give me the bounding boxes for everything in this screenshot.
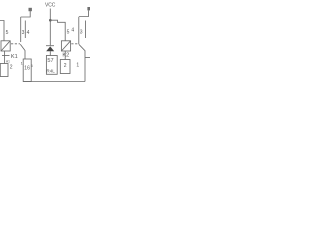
contact K1 fixed pin 4 line right: [85, 21, 87, 39]
connector box C: [60, 60, 70, 74]
relay coil K1: [1, 41, 10, 51]
diode D1: [46, 46, 54, 51]
svg-text:A1: A1: [6, 60, 10, 64]
dashed linkage K1: [11, 43, 20, 45]
wire VCC drop: [49, 9, 51, 46]
svg-text:4: 4: [71, 27, 74, 33]
component box center: [46, 56, 57, 75]
armature K1 contact: [20, 44, 25, 59]
wire diode to box: [49, 51, 51, 55]
svg-text:R4L: R4L: [46, 68, 55, 73]
svg-text:VCC: VCC: [45, 2, 56, 8]
node terminal right: [87, 7, 90, 10]
diode D1 cathode bar: [46, 45, 54, 47]
svg-text:3: 3: [80, 30, 83, 36]
svg-text:4: 4: [27, 30, 30, 36]
svg-text:2: 2: [10, 64, 13, 70]
svg-text:16: 16: [24, 65, 30, 71]
contact K2 fixed pin 4 line: [24, 21, 26, 39]
connector box B: [23, 59, 31, 82]
connector box A: [0, 64, 8, 77]
svg-text:5: 5: [67, 30, 70, 36]
svg-text:K1: K1: [11, 54, 18, 60]
wire coil K2 bottom pin: [64, 51, 66, 60]
svg-text:57: 57: [47, 58, 53, 64]
wire VCC to K2 coil: [50, 20, 65, 41]
contact K2 fixed pin 3 line: [20, 17, 22, 42]
coil K1 underline tick: [2, 55, 10, 57]
contact K1 fixed pin 3 line right: [78, 17, 80, 44]
armature K2 contact: [79, 44, 85, 81]
node junction dot: [49, 19, 52, 22]
svg-text:1: 1: [76, 62, 79, 68]
wire coil K1 bottom pin 2: [4, 51, 6, 64]
dashed linkage K2: [71, 43, 78, 45]
svg-text:K2: K2: [62, 53, 69, 59]
wire left input: [0, 21, 4, 41]
relay coil K2: [61, 41, 70, 51]
wire bottom rail: [23, 81, 85, 83]
node terminal left: [29, 8, 32, 11]
wire branch right edge: [85, 57, 90, 59]
wire contact top to terminal right: [79, 11, 89, 17]
svg-text:6: 6: [31, 64, 33, 68]
wire contact top to terminal: [21, 11, 31, 17]
svg-text:2: 2: [64, 63, 67, 69]
svg-text:3: 3: [22, 30, 25, 36]
svg-text:5: 5: [6, 30, 9, 36]
